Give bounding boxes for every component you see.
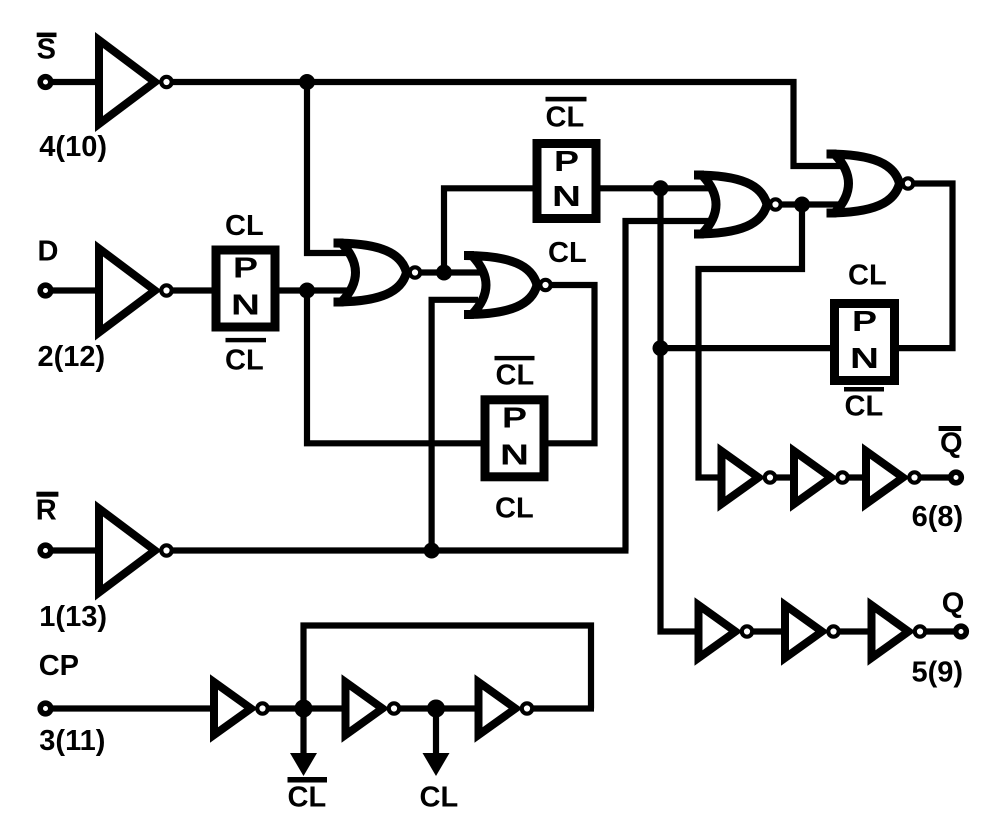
- label CL-bar above TG2: [546, 97, 587, 102]
- label CL-bar below TG4: [844, 387, 884, 392]
- inverter R-bar input buffer: [99, 509, 155, 593]
- wire D inverter output to transmission gate TG1: [172, 287, 212, 293]
- input terminal CP: [40, 703, 51, 714]
- wire node N3OUT down and left to Q-bar chain: [699, 205, 803, 478]
- bubble Q buffer 3: [915, 626, 925, 636]
- junction node M lower (TG4 feed tap): [653, 340, 669, 356]
- wire NOR1 output to NOR2 upper input: [420, 269, 492, 275]
- svg-text:P: P: [502, 402, 527, 434]
- label CL-bar clock net: [288, 777, 328, 783]
- svg-text:2(12): 2(12): [38, 341, 106, 373]
- svg-text:P: P: [554, 146, 579, 178]
- wire node D1 down to TG3 left: [307, 291, 481, 444]
- bubble Q buffer 1: [742, 626, 752, 636]
- svg-text:1(13): 1(13): [39, 601, 107, 633]
- wire S-bar inverter output run to NOR4 upper input: [172, 82, 846, 166]
- wire CP inverter1 to inverter2: [269, 705, 346, 711]
- bubble CP buffer 2: [389, 703, 399, 713]
- bubble of NOR U3: [770, 199, 780, 209]
- transmission gate TG2 (master feedback) box: [537, 144, 596, 219]
- inverter S-bar input buffer: [99, 40, 155, 124]
- svg-text:CL: CL: [548, 237, 587, 269]
- wire node SBAR down to NOR1 upper input: [307, 82, 352, 253]
- wire Q chain buffer3 to terminal: [926, 628, 955, 634]
- wire NOR2 lower input from R-bar line: [432, 300, 478, 551]
- buffer CP chain 2: [346, 682, 383, 735]
- label CL-bar below TG1: [226, 338, 267, 342]
- wire Q-bar chain buffer1 to buffer2: [776, 474, 795, 480]
- svg-text:D: D: [38, 236, 59, 268]
- wire NOR2 output loop down to TG3 right: [548, 285, 595, 443]
- wire CP feedback loop: [304, 626, 592, 709]
- transmission gate TG1 (D path) box: [216, 250, 275, 327]
- wire TG1 output to NOR1 lower input: [279, 287, 352, 293]
- junction node RBAR (R-bar line tap): [424, 543, 440, 559]
- label Q-bar output: [939, 426, 962, 431]
- svg-text:P: P: [852, 306, 877, 338]
- svg-text:4(10): 4(10): [39, 131, 107, 163]
- wire CP inverter3 output: [534, 705, 595, 711]
- wire Q-bar chain buffer3 to terminal: [921, 474, 951, 480]
- wire S-bar input stub: [46, 79, 102, 85]
- bubble Q-bar buffer 2: [837, 472, 847, 482]
- output terminal Q-bar: [951, 472, 962, 483]
- bubble of NOR U4: [903, 178, 913, 188]
- bubble Q-bar buffer 3: [909, 472, 919, 482]
- svg-text:CL: CL: [848, 260, 887, 292]
- svg-text:6(8): 6(8): [912, 501, 964, 533]
- svg-text:P: P: [233, 253, 258, 285]
- wire NOR3 output to NOR4 lower input: [780, 201, 848, 207]
- wire node M to TG4 left: [661, 345, 831, 351]
- svg-text:5(9): 5(9): [912, 657, 964, 689]
- wire R-bar inverter output run: [172, 547, 629, 553]
- buffer Q chain 2: [785, 605, 822, 658]
- buffer CP chain 1: [214, 682, 251, 735]
- svg-text:CL: CL: [845, 391, 884, 423]
- buffer Q-bar chain 2: [794, 451, 831, 504]
- NOR gate U1 (master input): [334, 243, 407, 302]
- buffer Q chain 3: [872, 605, 909, 658]
- svg-text:CL: CL: [225, 210, 264, 242]
- junction node N3OUT (NOR3 output tap): [794, 197, 810, 213]
- bubble Q-bar buffer 1: [765, 472, 775, 482]
- svg-text:CL: CL: [420, 782, 459, 814]
- wire CL arrow stem: [433, 709, 439, 755]
- wire node N1OUT up to TG2 left: [444, 188, 533, 272]
- NOR gate U3 (slave input): [694, 175, 767, 234]
- arrowhead CL clock output: [423, 753, 450, 776]
- buffer CP chain 3: [479, 682, 516, 735]
- svg-text:Q: Q: [942, 588, 965, 620]
- bubble CP buffer 3: [522, 703, 532, 713]
- svg-text:CL: CL: [495, 493, 534, 525]
- svg-text:CL: CL: [225, 345, 264, 377]
- label S-bar input: [37, 33, 57, 38]
- wire Q chain buffer1 to buffer2: [753, 628, 785, 634]
- svg-text:N: N: [552, 181, 581, 213]
- junction node N1OUT (NOR1 output tap): [436, 265, 452, 281]
- svg-text:R: R: [36, 494, 57, 526]
- junction node SBAR (S-bar line tap): [299, 74, 315, 90]
- svg-text:Q: Q: [940, 428, 963, 460]
- buffer Q chain 1: [699, 605, 736, 658]
- inverter D input buffer: [99, 249, 155, 333]
- bubble of R-bar inverter: [161, 545, 171, 555]
- buffer Q-bar chain 3: [866, 451, 903, 504]
- NOR gate U4 (slave output): [827, 154, 900, 213]
- svg-text:CL: CL: [496, 359, 535, 391]
- input terminal S-bar: [40, 77, 51, 88]
- bubble of S-bar inverter: [161, 77, 171, 87]
- wire D input stub: [46, 287, 102, 293]
- svg-text:S: S: [37, 34, 56, 66]
- output terminal Q: [956, 626, 967, 637]
- svg-text:CL: CL: [288, 782, 327, 814]
- transmission gate TG3 (slave feedback) box: [485, 400, 544, 477]
- buffer Q-bar chain 1: [722, 451, 759, 504]
- wire CP inverter2 to inverter3: [401, 705, 480, 711]
- wire node M vertical down to Q chain: [661, 188, 701, 631]
- wire NOR3 lower input from R-bar line: [626, 221, 715, 551]
- wire NOR4 output loop to TG4 right: [899, 184, 953, 349]
- bubble Q buffer 2: [828, 626, 838, 636]
- transmission gate TG4 (output stage) box: [835, 304, 895, 381]
- wire Q-bar chain buffer2 to buffer3: [849, 474, 867, 480]
- wire CL-bar arrow stem: [300, 709, 306, 755]
- junction node D1 (TG1 output tap): [299, 283, 315, 299]
- bubble CP buffer 1: [257, 703, 267, 713]
- svg-text:CP: CP: [39, 650, 79, 682]
- bubble of NOR U2: [540, 280, 550, 290]
- bubble of NOR U1: [410, 267, 420, 277]
- wire CP input stub: [46, 705, 216, 711]
- wire Q chain buffer2 to buffer3: [840, 628, 872, 634]
- label CL-bar above TG3: [495, 356, 535, 360]
- label R-bar input: [36, 492, 58, 497]
- wire R-bar input stub: [46, 547, 102, 553]
- bubble of D inverter: [161, 285, 171, 295]
- junction node CLBAR (CP chain tap 1): [295, 700, 313, 718]
- svg-text:N: N: [850, 343, 879, 375]
- wire TG2 output to NOR3 upper input: [600, 185, 714, 191]
- svg-text:CL: CL: [546, 101, 585, 133]
- input terminal R-bar: [40, 545, 51, 556]
- svg-text:3(11): 3(11): [39, 725, 105, 757]
- input terminal D: [40, 285, 51, 296]
- svg-text:N: N: [231, 290, 260, 322]
- svg-text:N: N: [500, 440, 529, 472]
- arrowhead CL-bar clock output: [290, 753, 317, 776]
- NOR gate U2 (master output): [464, 256, 537, 315]
- junction node CL (CP chain tap 2): [427, 700, 445, 718]
- junction node M upper (TG2 output tap): [653, 180, 669, 196]
